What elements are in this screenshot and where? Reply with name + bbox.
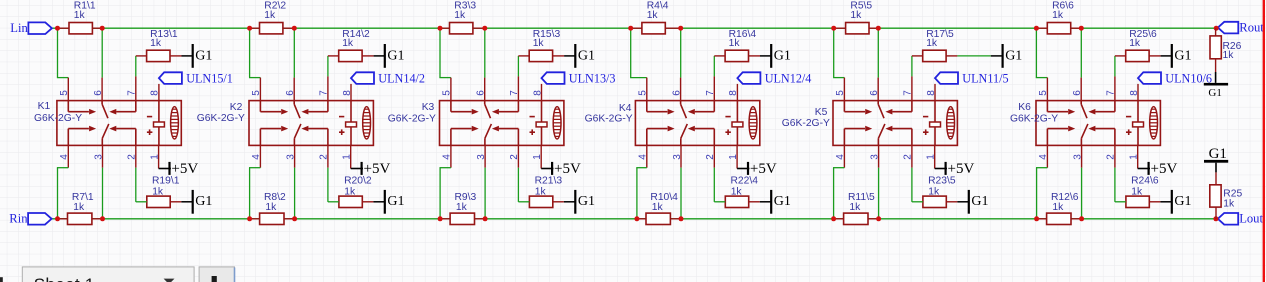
svg-text:G6K-2G-Y: G6K-2G-Y	[1010, 114, 1058, 125]
svg-text:5: 5	[442, 90, 453, 96]
svg-text:1k: 1k	[533, 38, 545, 49]
svg-text:8: 8	[532, 90, 543, 96]
svg-text:1k: 1k	[652, 202, 664, 213]
svg-text:6: 6	[671, 90, 682, 96]
svg-text:6: 6	[285, 90, 296, 96]
svg-text:5: 5	[638, 90, 649, 96]
svg-text:7: 7	[1106, 90, 1117, 96]
svg-text:Sheet 1: Sheet 1	[34, 275, 95, 282]
svg-text:G1: G1	[1209, 146, 1227, 162]
svg-text:Lin: Lin	[10, 21, 28, 35]
svg-text:G1: G1	[1005, 48, 1022, 63]
svg-text:7: 7	[509, 90, 520, 96]
svg-text:1k: 1k	[647, 10, 659, 21]
svg-text:5: 5	[1038, 90, 1049, 96]
svg-text:1k: 1k	[928, 187, 940, 198]
svg-text:8: 8	[1129, 90, 1140, 96]
svg-text:R21\3: R21\3	[535, 175, 563, 186]
svg-text:K5: K5	[815, 107, 828, 118]
svg-text:1k: 1k	[1223, 199, 1235, 210]
svg-text:G1: G1	[774, 48, 791, 63]
svg-text:7: 7	[127, 90, 138, 96]
svg-text:G1: G1	[1208, 87, 1221, 99]
svg-text:G1: G1	[971, 194, 988, 209]
svg-text:R22\4: R22\4	[731, 175, 759, 186]
svg-text:1k: 1k	[456, 202, 468, 213]
svg-text:8: 8	[342, 90, 353, 96]
svg-text:1k: 1k	[535, 187, 547, 198]
svg-text:1k: 1k	[1052, 10, 1064, 21]
svg-text:Rout: Rout	[1239, 20, 1264, 34]
svg-text:1k: 1k	[74, 10, 86, 21]
svg-text:Lout: Lout	[1239, 212, 1263, 226]
svg-text:ULN13/3: ULN13/3	[569, 71, 616, 85]
svg-text:1k: 1k	[73, 202, 85, 213]
svg-text:G1: G1	[195, 194, 212, 209]
svg-text:G1: G1	[195, 48, 212, 63]
svg-text:ULN12/4: ULN12/4	[765, 71, 812, 85]
svg-text:1k: 1k	[849, 202, 861, 213]
svg-text:R23\5: R23\5	[928, 175, 956, 186]
svg-text:1k: 1k	[150, 38, 162, 49]
svg-text:K3: K3	[422, 102, 435, 113]
svg-text:5: 5	[251, 90, 262, 96]
svg-text:G6K-2G-Y: G6K-2G-Y	[388, 114, 436, 125]
svg-text:G6K-2G-Y: G6K-2G-Y	[34, 113, 82, 124]
svg-text:ULN15/1: ULN15/1	[186, 71, 233, 85]
svg-text:1k: 1k	[152, 187, 164, 198]
svg-text:5: 5	[835, 90, 846, 96]
svg-text:8: 8	[150, 90, 161, 96]
svg-text:ULN14/2: ULN14/2	[378, 71, 425, 85]
svg-text:1k: 1k	[344, 187, 356, 198]
svg-text:G6K-2G-Y: G6K-2G-Y	[585, 114, 633, 125]
svg-text:R20\2: R20\2	[344, 175, 372, 186]
svg-text:1k: 1k	[342, 38, 354, 49]
svg-text:R24\6: R24\6	[1131, 175, 1159, 186]
svg-text:1k: 1k	[454, 10, 466, 21]
svg-text:1k: 1k	[1131, 187, 1143, 198]
svg-text:6: 6	[1072, 90, 1083, 96]
svg-text:G1: G1	[578, 194, 595, 209]
svg-text:1k: 1k	[926, 38, 938, 49]
svg-text:1k: 1k	[731, 187, 743, 198]
svg-text:7: 7	[319, 90, 330, 96]
svg-text:8: 8	[926, 90, 937, 96]
svg-text:G1: G1	[774, 194, 791, 209]
svg-text:G1: G1	[578, 48, 595, 63]
svg-text:1k: 1k	[1223, 50, 1235, 61]
svg-text:ULN11/5: ULN11/5	[962, 71, 1008, 85]
svg-text:G1: G1	[1174, 48, 1191, 63]
svg-text:1k: 1k	[1129, 38, 1141, 49]
svg-text:K6: K6	[1018, 102, 1031, 113]
svg-text:1k: 1k	[850, 10, 862, 21]
svg-text:Rin: Rin	[9, 212, 28, 226]
svg-text:5: 5	[59, 90, 70, 96]
svg-text:1k: 1k	[265, 202, 277, 213]
svg-text:G1: G1	[387, 194, 404, 209]
svg-text:6: 6	[93, 90, 104, 96]
svg-text:6: 6	[476, 90, 487, 96]
svg-text:1k: 1k	[729, 38, 741, 49]
svg-text:G1: G1	[387, 48, 404, 63]
svg-text:G1: G1	[1174, 194, 1191, 209]
svg-text:7: 7	[705, 90, 716, 96]
svg-text:8: 8	[728, 90, 739, 96]
svg-text:K1: K1	[38, 101, 51, 112]
svg-text:G6K-2G-Y: G6K-2G-Y	[782, 118, 830, 129]
svg-text:6: 6	[869, 90, 880, 96]
svg-text:K2: K2	[230, 102, 243, 113]
svg-text:1k: 1k	[1052, 202, 1064, 213]
svg-text:1k: 1k	[264, 10, 276, 21]
svg-text:K4: K4	[619, 103, 632, 114]
svg-text:R19\1: R19\1	[152, 175, 180, 186]
svg-text:G6K-2G-Y: G6K-2G-Y	[197, 113, 245, 124]
svg-text:7: 7	[903, 90, 914, 96]
